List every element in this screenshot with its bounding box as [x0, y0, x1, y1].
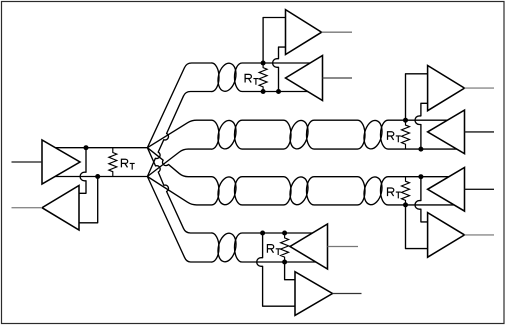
- node junction pair1 B resistor: [261, 89, 266, 94]
- wire twisted pair 3 middle segment 2: [307, 177, 366, 205]
- wire bus B left node: [50, 176, 147, 178]
- twisted pair 3 twist 3: [361, 175, 384, 206]
- wire receiver U8 output: [465, 234, 495, 236]
- wire receiver U5 input B with hop: [415, 103, 428, 149]
- node junction pair1 A: [261, 61, 266, 66]
- twisted pair 1 twist: [215, 61, 238, 93]
- receiver U5: [428, 66, 465, 111]
- label RT node3: [387, 187, 401, 198]
- node junction pair1 B receiver: [276, 89, 281, 94]
- label RT node1: [245, 74, 259, 85]
- driver U4: [286, 56, 323, 101]
- node junction pair4 B: [282, 260, 287, 265]
- node junction pair2 B: [418, 147, 423, 152]
- wire receiver U10 input B: [285, 262, 297, 280]
- twisted pair 4 twist: [215, 231, 238, 263]
- label RT left: [121, 159, 135, 170]
- wire twisted pair 2 middle segment 2: [307, 120, 366, 149]
- resistor RT node1 termination: [259, 63, 267, 92]
- wire twisted pair 2 left segment: [147, 120, 219, 176]
- node junction pair3 A: [418, 174, 423, 179]
- wire twisted pair 3 left segment with crossover hop: [147, 148, 219, 205]
- wire twisted pair 4 left segment with crossover hops: [147, 148, 219, 262]
- wire driver U6 input: [465, 131, 495, 133]
- wire receiver U2 input A with hop: [78, 148, 86, 194]
- wire twisted pair 1 right segment to node 1: [235, 63, 317, 92]
- driver U9: [290, 224, 328, 269]
- resistor RT left termination: [109, 148, 117, 177]
- wire receiver U3 input A: [263, 18, 286, 64]
- label RT node4: [267, 244, 281, 255]
- twisted pair 3 twist 1: [215, 175, 238, 206]
- wire receiver U3 output: [322, 31, 352, 33]
- twisted pair 2 twist 3: [361, 119, 384, 151]
- wire twisted pair 2 middle segment 1: [235, 120, 292, 149]
- node junction bus B left: [95, 174, 100, 179]
- wire driver U4 input: [323, 77, 353, 79]
- node junction pair4 A left: [260, 231, 265, 236]
- receiver U3: [286, 10, 322, 55]
- receiver U8: [428, 213, 465, 258]
- wire receiver U10 input A with hop: [257, 233, 297, 306]
- driver U6: [428, 110, 465, 154]
- wire twisted pair 3 middle segment 1: [235, 177, 292, 205]
- wire twisted pair 1 left segment with crossover hops: [147, 63, 219, 177]
- wire receiver U8 input A with hop: [415, 177, 429, 222]
- wire receiver U2 input B: [78, 177, 98, 223]
- wire driver U9 input: [328, 246, 359, 248]
- wire receiver U2 output: [12, 207, 43, 209]
- wire receiver U5 output: [465, 87, 495, 89]
- wire twisted pair 3 right segment to node 3: [381, 177, 460, 205]
- receiver U10: [295, 272, 333, 316]
- wire receiver U10 output: [333, 293, 362, 295]
- wire bus A left node: [50, 147, 147, 149]
- twisted pair 3 twist 2: [287, 175, 310, 206]
- twisted pair 2 twist 2: [287, 119, 310, 151]
- wire driver U1 input: [12, 161, 43, 163]
- driver U7: [428, 168, 465, 212]
- node junction pair3 B: [403, 202, 408, 207]
- wire twisted pair 2 right segment to node 2: [381, 120, 459, 149]
- resistor RT node3 termination: [402, 177, 410, 205]
- wire receiver U8 input B: [406, 205, 430, 249]
- node junction pair2 A: [403, 118, 408, 123]
- wire receiver U5 input A: [406, 74, 430, 120]
- twisted pair 2 twist 1: [215, 119, 238, 151]
- resistor RT node2 termination: [402, 120, 410, 149]
- driver U1: [42, 140, 80, 184]
- node junction bus A left: [84, 145, 89, 150]
- node junction pair4 A resistor: [282, 231, 287, 236]
- wire driver U7 input: [465, 188, 495, 190]
- resistor RT node4 termination: [281, 233, 289, 262]
- label RT node2: [387, 131, 401, 142]
- wire receiver U3 input B with hop: [273, 47, 286, 91]
- receiver U2: [42, 186, 79, 231]
- wire twisted pair 4 right segment to node 4: [235, 233, 317, 262]
